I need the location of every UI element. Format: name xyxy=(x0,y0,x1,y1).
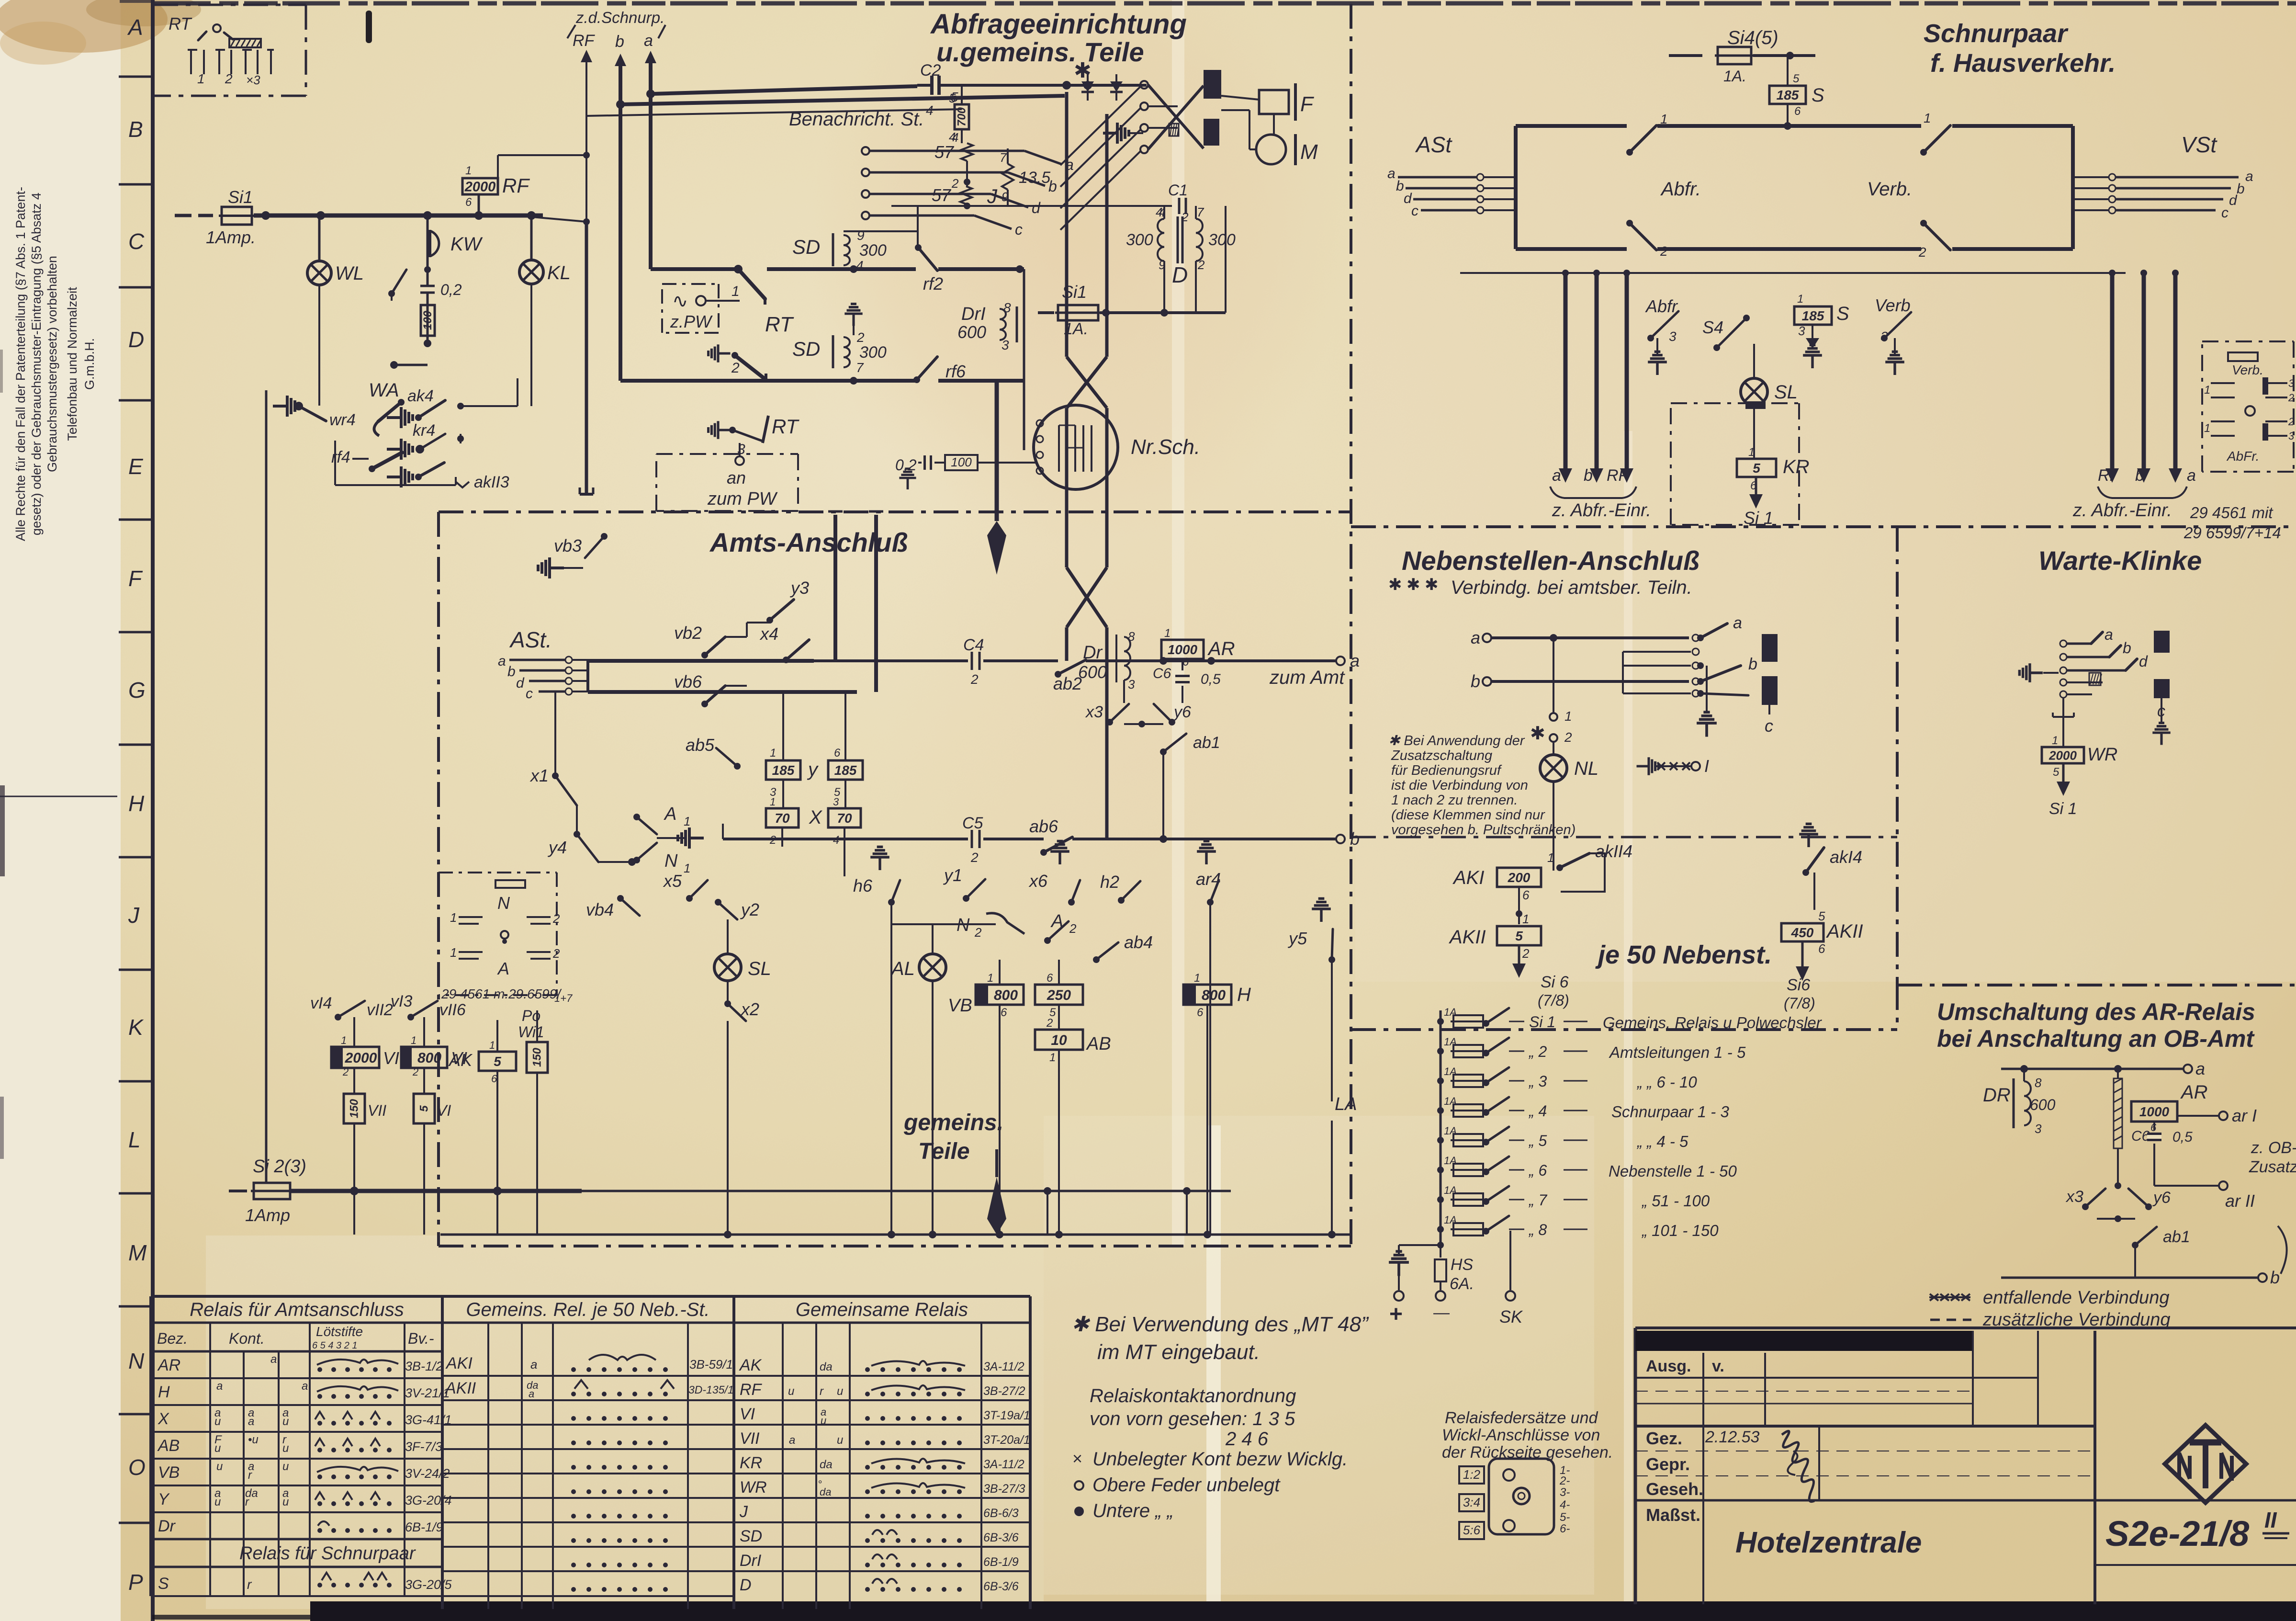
svg-text:3B-59/1: 3B-59/1 xyxy=(689,1357,733,1372)
svg-text:C6: C6 xyxy=(2131,1128,2150,1144)
svg-text:u: u xyxy=(282,1442,289,1455)
svg-text:c: c xyxy=(1765,716,1773,736)
svg-text:5: 5 xyxy=(1753,461,1760,476)
svg-text:y: y xyxy=(807,759,819,780)
svg-text:SL: SL xyxy=(1774,382,1798,403)
svg-text:3A-11/2: 3A-11/2 xyxy=(983,1360,1024,1373)
svg-text:r: r xyxy=(248,1469,252,1482)
svg-text:Wickl-Anschlüsse von: Wickl-Anschlüsse von xyxy=(1442,1426,1600,1444)
svg-text:2: 2 xyxy=(1197,258,1205,272)
svg-text:S: S xyxy=(1812,85,1824,106)
svg-text:1: 1 xyxy=(1522,912,1529,926)
svg-text:b: b xyxy=(1350,829,1360,849)
svg-text:Gemeins. Relais u Polwechsler: Gemeins. Relais u Polwechsler xyxy=(1603,1014,1823,1032)
svg-text:akI4: akI4 xyxy=(1830,847,1862,867)
svg-text:C1: C1 xyxy=(1168,181,1188,199)
svg-text:2: 2 xyxy=(1046,1017,1053,1030)
svg-text:z. Abfr.-Einr.: z. Abfr.-Einr. xyxy=(1552,500,1651,521)
svg-text:5: 5 xyxy=(2053,766,2060,779)
svg-text:29 6599/7+14: 29 6599/7+14 xyxy=(2183,524,2281,542)
svg-text:800: 800 xyxy=(417,1050,441,1066)
svg-text:×3: ×3 xyxy=(246,73,260,87)
svg-text:1A: 1A xyxy=(1444,1095,1457,1107)
svg-text:AR: AR xyxy=(1207,638,1235,659)
svg-text:a: a xyxy=(498,653,506,669)
svg-text:Si1: Si1 xyxy=(228,187,253,207)
svg-text:gemeins.: gemeins. xyxy=(903,1110,1003,1135)
svg-text:a: a xyxy=(1387,166,1396,181)
svg-text:1Amp.: 1Amp. xyxy=(206,227,256,247)
svg-text:3-: 3- xyxy=(1560,1486,1570,1499)
svg-text:Zusatz: Zusatz xyxy=(2249,1158,2296,1176)
svg-text:2: 2 xyxy=(1522,946,1530,961)
svg-text:b: b xyxy=(2123,639,2131,657)
svg-text:d: d xyxy=(2229,193,2238,208)
svg-text:c: c xyxy=(1015,221,1023,238)
svg-text:gesetz) oder der Gebrauchsmust: gesetz) oder der Gebrauchsmuster-Eintrag… xyxy=(29,193,44,535)
svg-text:1: 1 xyxy=(489,1039,495,1051)
svg-text:1: 1 xyxy=(770,796,776,808)
svg-text:2: 2 xyxy=(2288,416,2294,428)
svg-text:6: 6 xyxy=(465,196,472,209)
svg-text:S2e-21/8: S2e-21/8 xyxy=(2105,1514,2250,1553)
svg-text:1 nach 2 zu trennen.: 1 nach 2 zu trennen. xyxy=(1391,793,1518,808)
svg-text:Bv.-: Bv.- xyxy=(408,1330,434,1347)
svg-text:ab4: ab4 xyxy=(1124,932,1153,952)
svg-text:2 4 6: 2 4 6 xyxy=(1225,1428,1269,1450)
svg-text:800: 800 xyxy=(994,987,1018,1003)
svg-text:u: u xyxy=(282,1496,289,1508)
svg-text:2: 2 xyxy=(2288,392,2294,404)
svg-text:Untere „ „: Untere „ „ xyxy=(1092,1500,1173,1521)
svg-text:a: a xyxy=(2195,1059,2205,1078)
svg-text:r: r xyxy=(245,1496,249,1508)
svg-text:DrI: DrI xyxy=(961,304,986,324)
svg-text:3: 3 xyxy=(737,442,745,457)
svg-text:Verb: Verb xyxy=(1875,295,1911,315)
svg-text:z.d.Schnurp.: z.d.Schnurp. xyxy=(575,9,664,26)
svg-text:3: 3 xyxy=(1798,324,1805,338)
svg-text:von vorn gesehen: 1 3 5: von vorn gesehen: 1 3 5 xyxy=(1090,1408,1295,1429)
svg-text:100: 100 xyxy=(951,455,972,469)
svg-text:3D-135/1: 3D-135/1 xyxy=(688,1383,734,1396)
svg-text:•u: •u xyxy=(248,1433,259,1446)
svg-text:VB: VB xyxy=(158,1463,180,1482)
svg-text:vb3: vb3 xyxy=(554,536,582,555)
svg-text:3T-19a/1: 3T-19a/1 xyxy=(983,1409,1030,1422)
svg-text:Ausg.: Ausg. xyxy=(1646,1357,1691,1375)
svg-text:2000: 2000 xyxy=(464,179,496,194)
svg-text:185: 185 xyxy=(772,763,795,778)
svg-text:a: a xyxy=(529,1388,534,1400)
svg-text:rf2: rf2 xyxy=(923,274,943,294)
svg-text:2: 2 xyxy=(1564,730,1572,745)
svg-text:„ 2: „ 2 xyxy=(1528,1043,1547,1060)
svg-text:Si 1: Si 1 xyxy=(1744,508,1773,528)
svg-text:rf4: rf4 xyxy=(331,448,350,466)
svg-text:rf6: rf6 xyxy=(945,362,966,381)
svg-text:S: S xyxy=(1836,303,1849,324)
svg-text:Geseh.: Geseh. xyxy=(1646,1479,1703,1499)
svg-text:1: 1 xyxy=(1797,293,1803,306)
svg-text:x1: x1 xyxy=(529,766,549,785)
svg-text:VB: VB xyxy=(948,996,972,1016)
svg-text:Kont.: Kont. xyxy=(229,1330,265,1347)
svg-text:ist die Verbindung von: ist die Verbindung von xyxy=(1391,778,1528,793)
svg-text:K: K xyxy=(128,1015,144,1040)
svg-text:✱: ✱ xyxy=(1530,724,1545,744)
svg-text:b: b xyxy=(615,33,624,51)
svg-text:ASt: ASt xyxy=(1415,132,1452,157)
svg-text:5: 5 xyxy=(1793,72,1800,85)
svg-text:zum Amt: zum Amt xyxy=(1269,667,1345,688)
svg-text:Dr: Dr xyxy=(1083,643,1103,663)
svg-text:3: 3 xyxy=(1669,329,1677,344)
svg-text:Si 1: Si 1 xyxy=(2049,800,2077,818)
svg-text:VII: VII xyxy=(368,1102,386,1119)
svg-text:ar II: ar II xyxy=(2225,1191,2255,1211)
svg-text:NL: NL xyxy=(1574,758,1598,779)
svg-text:1: 1 xyxy=(450,910,457,925)
svg-text:1A: 1A xyxy=(1444,1214,1457,1226)
svg-text:J: J xyxy=(739,1503,748,1521)
svg-text:8: 8 xyxy=(2035,1076,2042,1090)
svg-text:Telefonbau und Normalzeit: Telefonbau und Normalzeit xyxy=(65,287,79,441)
svg-text:ak4: ak4 xyxy=(407,387,434,405)
svg-text:je 50 Nebenst.: je 50 Nebenst. xyxy=(1595,941,1772,969)
svg-text:2: 2 xyxy=(412,1066,418,1078)
svg-text:akII3: akII3 xyxy=(474,473,509,491)
svg-text:5: 5 xyxy=(1515,929,1523,943)
svg-text:RF: RF xyxy=(573,32,596,50)
svg-text:u: u xyxy=(214,1415,221,1428)
svg-text:AK: AK xyxy=(448,1050,473,1070)
svg-text:1: 1 xyxy=(2204,422,2210,435)
svg-text:D: D xyxy=(740,1576,752,1594)
svg-text:4: 4 xyxy=(856,258,864,273)
svg-text:185: 185 xyxy=(1802,308,1824,323)
svg-text:2: 2 xyxy=(552,911,560,926)
svg-text:✱: ✱ xyxy=(1425,576,1439,594)
svg-text:v.: v. xyxy=(1712,1357,1724,1375)
svg-text:1: 1 xyxy=(684,814,690,828)
svg-text:„ 5: „ 5 xyxy=(1528,1132,1547,1149)
svg-text:2000: 2000 xyxy=(2048,748,2077,762)
svg-text:7: 7 xyxy=(1197,205,1204,219)
svg-text:2-: 2- xyxy=(1559,1474,1570,1487)
svg-text:3B-27/3: 3B-27/3 xyxy=(983,1482,1025,1496)
svg-text:1: 1 xyxy=(450,945,457,960)
svg-text:4-: 4- xyxy=(1560,1498,1570,1511)
svg-text:„ „ 6 - 10: „ „ 6 - 10 xyxy=(1636,1073,1697,1091)
svg-text:8: 8 xyxy=(1003,300,1011,315)
svg-text:2: 2 xyxy=(769,834,776,847)
svg-text:y6: y6 xyxy=(2152,1189,2171,1207)
svg-text:70: 70 xyxy=(837,811,852,826)
svg-text:1+7: 1+7 xyxy=(554,992,573,1004)
svg-text:ab5: ab5 xyxy=(686,735,715,755)
svg-text:d: d xyxy=(1032,199,1041,216)
svg-text:150: 150 xyxy=(348,1099,361,1118)
svg-text:J: J xyxy=(128,903,140,928)
svg-text:300: 300 xyxy=(1126,231,1153,249)
svg-text:5: 5 xyxy=(1818,909,1825,923)
svg-text:S4: S4 xyxy=(1702,317,1723,337)
svg-text:1: 1 xyxy=(411,1034,416,1046)
svg-text:x2: x2 xyxy=(740,999,759,1019)
svg-text:d: d xyxy=(516,675,525,691)
svg-text:1: 1 xyxy=(1748,446,1755,459)
svg-text:7: 7 xyxy=(1000,150,1007,165)
svg-text:bei Anschaltung an OB-Amt: bei Anschaltung an OB-Amt xyxy=(1937,1025,2255,1052)
svg-text:Umschaltung des AR-Relais: Umschaltung des AR-Relais xyxy=(1937,998,2255,1025)
svg-text:entfallende Verbindung: entfallende Verbindung xyxy=(1983,1288,2169,1308)
svg-text:y3: y3 xyxy=(789,578,809,598)
svg-text:a: a xyxy=(1552,466,1561,485)
svg-text:4: 4 xyxy=(833,834,839,847)
svg-text:✱: ✱ xyxy=(1407,576,1420,594)
svg-text:Gez.: Gez. xyxy=(1646,1428,1682,1448)
svg-text:Si 1: Si 1 xyxy=(1529,1013,1555,1031)
svg-text:6: 6 xyxy=(1047,972,1053,985)
svg-text:RT: RT xyxy=(765,313,794,336)
svg-text:WR: WR xyxy=(2087,745,2117,765)
svg-text:8: 8 xyxy=(1128,629,1135,644)
svg-text:„ 101 - 150: „ 101 - 150 xyxy=(1641,1222,1719,1239)
svg-text:b: b xyxy=(1748,655,1757,673)
svg-text:„ 6: „ 6 xyxy=(1528,1162,1547,1179)
svg-text:y6: y6 xyxy=(1173,703,1191,721)
svg-text:6: 6 xyxy=(1197,1006,1204,1019)
svg-text:6: 6 xyxy=(1182,656,1189,669)
svg-text:Unbelegter Kont bezw Wicklg.: Unbelegter Kont bezw Wicklg. xyxy=(1092,1449,1348,1470)
svg-text:H: H xyxy=(128,791,145,816)
svg-text:2: 2 xyxy=(970,850,979,865)
svg-text:RF: RF xyxy=(740,1381,763,1399)
svg-text:x3: x3 xyxy=(1085,703,1103,721)
svg-text:Nebenstelle 1 - 50: Nebenstelle 1 - 50 xyxy=(1609,1162,1737,1180)
svg-text:6B-6/3: 6B-6/3 xyxy=(983,1507,1019,1520)
svg-text:1A: 1A xyxy=(1444,1066,1457,1077)
svg-text:700: 700 xyxy=(956,107,968,126)
svg-text:a: a xyxy=(302,1380,308,1393)
svg-text:z.PW: z.PW xyxy=(670,312,713,331)
svg-text:SD: SD xyxy=(740,1527,762,1545)
svg-text:d: d xyxy=(2139,653,2148,670)
svg-text:SK: SK xyxy=(1499,1307,1523,1326)
svg-text:Rf: Rf xyxy=(2098,466,2116,485)
svg-text:Relais für Amtsanschluss: Relais für Amtsanschluss xyxy=(190,1299,404,1320)
svg-text:600: 600 xyxy=(957,322,986,342)
svg-text:X: X xyxy=(158,1410,169,1428)
svg-text:z. OB-: z. OB- xyxy=(2251,1139,2296,1157)
svg-text:zum PW: zum PW xyxy=(707,489,778,509)
svg-text:J: J xyxy=(987,185,998,207)
svg-text:Nebenstellen-Anschluß: Nebenstellen-Anschluß xyxy=(1402,545,1699,576)
svg-text:2: 2 xyxy=(951,176,959,191)
svg-text:Amtsleitungen 1 - 5: Amtsleitungen 1 - 5 xyxy=(1609,1043,1746,1061)
svg-text:r: r xyxy=(820,1385,824,1398)
svg-text:A: A xyxy=(664,804,676,824)
svg-text:WR: WR xyxy=(740,1478,767,1496)
svg-text:u: u xyxy=(214,1496,221,1508)
svg-text:6: 6 xyxy=(1001,1006,1007,1019)
svg-text:H: H xyxy=(158,1383,170,1401)
svg-text:M: M xyxy=(128,1240,147,1265)
svg-text:b: b xyxy=(1471,671,1480,691)
svg-text:3: 3 xyxy=(1002,338,1009,352)
svg-text:Warte-Klinke: Warte-Klinke xyxy=(2038,545,2202,576)
svg-text:Maßst.: Maßst. xyxy=(1646,1505,1700,1525)
svg-text:X: X xyxy=(809,807,822,828)
svg-text:3: 3 xyxy=(1880,329,1888,344)
svg-text:da: da xyxy=(820,1360,833,1373)
svg-text:y5: y5 xyxy=(1287,929,1307,948)
svg-text:a: a xyxy=(1471,628,1480,647)
svg-text:5: 5 xyxy=(418,1105,431,1112)
svg-text:für Bedienungsruf: für Bedienungsruf xyxy=(1391,763,1502,778)
svg-text:ar I: ar I xyxy=(2232,1106,2257,1125)
svg-text:vb4: vb4 xyxy=(586,900,614,919)
svg-text:G.m.b.H.: G.m.b.H. xyxy=(82,338,97,390)
svg-text:DrI: DrI xyxy=(740,1552,762,1570)
svg-text:N: N xyxy=(957,915,970,935)
svg-text:100: 100 xyxy=(421,310,434,330)
svg-text:wr4: wr4 xyxy=(329,411,356,429)
svg-text:SD: SD xyxy=(792,236,820,258)
svg-text:150: 150 xyxy=(531,1047,544,1067)
svg-text:A: A xyxy=(497,959,509,978)
svg-text:1: 1 xyxy=(1924,111,1931,125)
svg-text:2: 2 xyxy=(970,672,979,687)
svg-text:6B-3/6: 6B-3/6 xyxy=(983,1531,1019,1544)
svg-text:c: c xyxy=(526,686,533,702)
svg-text:WA: WA xyxy=(369,380,399,401)
svg-text:Alle Rechte für den Fall der P: Alle Rechte für den Fall der Patentertei… xyxy=(13,187,28,541)
svg-text:a: a xyxy=(216,1380,223,1393)
svg-text:RT: RT xyxy=(169,14,192,34)
svg-text:Schnurpaar: Schnurpaar xyxy=(1924,19,2069,48)
svg-text:3T-20a/1: 3T-20a/1 xyxy=(983,1433,1030,1447)
svg-text:4: 4 xyxy=(926,103,934,118)
svg-text:Wi1: Wi1 xyxy=(518,1023,544,1041)
svg-text:5: 5 xyxy=(494,1054,501,1069)
svg-text:1A: 1A xyxy=(1444,1006,1457,1018)
svg-text:C5: C5 xyxy=(962,814,983,832)
svg-text:2: 2 xyxy=(225,71,233,86)
svg-text:10: 10 xyxy=(1051,1032,1067,1048)
svg-text:4: 4 xyxy=(952,130,958,145)
svg-text:Si6: Si6 xyxy=(1787,976,1810,994)
svg-text:6: 6 xyxy=(1794,105,1801,118)
svg-text:A: A xyxy=(127,15,143,40)
svg-text:1: 1 xyxy=(987,972,993,985)
svg-text:AR: AR xyxy=(157,1356,180,1374)
svg-text:VI: VI xyxy=(437,1102,451,1119)
svg-text:600: 600 xyxy=(1078,662,1107,682)
svg-text:6: 6 xyxy=(2150,1122,2157,1134)
svg-text:9: 9 xyxy=(857,228,865,243)
svg-text:AK: AK xyxy=(739,1356,762,1374)
svg-text:Si 6: Si 6 xyxy=(1541,973,1569,991)
svg-text:a: a xyxy=(644,32,653,50)
svg-text:z. Abfr.-Einr.: z. Abfr.-Einr. xyxy=(2072,500,2172,521)
svg-text:KR: KR xyxy=(1783,456,1810,477)
svg-text:WL: WL xyxy=(335,263,364,284)
svg-text:ab6: ab6 xyxy=(1029,816,1058,836)
svg-text:300: 300 xyxy=(859,343,887,362)
svg-text:AKII: AKII xyxy=(444,1379,476,1397)
svg-text:3B-27/2: 3B-27/2 xyxy=(983,1384,1025,1398)
svg-text:D: D xyxy=(128,327,144,352)
svg-text:VSt: VSt xyxy=(2181,132,2217,157)
svg-text:u: u xyxy=(837,1434,843,1447)
svg-text:kr4: kr4 xyxy=(413,421,435,440)
svg-text:0,5: 0,5 xyxy=(1201,671,1221,687)
svg-text:2: 2 xyxy=(974,925,982,940)
svg-text:„ 7: „ 7 xyxy=(1528,1191,1548,1209)
svg-text:AKI: AKI xyxy=(1452,867,1484,888)
svg-text:7: 7 xyxy=(856,360,864,375)
svg-text:+: + xyxy=(1389,1302,1403,1327)
svg-text:u: u xyxy=(214,1442,221,1455)
svg-text:3: 3 xyxy=(1128,677,1135,691)
svg-text:1:2: 1:2 xyxy=(1463,1467,1481,1482)
svg-text:b: b xyxy=(2237,181,2245,197)
svg-text:N: N xyxy=(664,851,678,871)
svg-text:F: F xyxy=(1300,92,1314,116)
svg-text:„ 4: „ 4 xyxy=(1528,1102,1547,1120)
svg-text:1: 1 xyxy=(1164,627,1171,640)
svg-text:KL: KL xyxy=(547,262,571,283)
svg-text:c: c xyxy=(1411,203,1418,219)
svg-text:185: 185 xyxy=(834,763,857,778)
svg-text:5-: 5- xyxy=(1560,1511,1570,1524)
svg-text:2: 2 xyxy=(1918,245,1926,260)
svg-text:Verbindg. bei amtsber. Teiln.: Verbindg. bei amtsber. Teiln. xyxy=(1451,577,1692,598)
svg-text:6: 6 xyxy=(1522,888,1530,902)
svg-text:✱ Bei Verwendung des „MT 48”: ✱ Bei Verwendung des „MT 48” xyxy=(1071,1313,1369,1336)
svg-text:2: 2 xyxy=(342,1066,349,1078)
svg-text:b: b xyxy=(507,664,516,680)
svg-text:AKII: AKII xyxy=(1826,921,1863,942)
svg-text:RF: RF xyxy=(502,174,530,197)
svg-text:13.5: 13.5 xyxy=(1019,169,1050,187)
svg-text:RT: RT xyxy=(772,415,800,438)
svg-text:f. Hausverkehr.: f. Hausverkehr. xyxy=(1930,49,2116,78)
svg-text:DR: DR xyxy=(1983,1085,2011,1106)
svg-text:—: — xyxy=(1433,1304,1450,1322)
svg-text:6B-1/9: 6B-1/9 xyxy=(405,1520,443,1534)
svg-text:Teile: Teile xyxy=(918,1139,970,1164)
svg-text:vb6: vb6 xyxy=(674,672,702,691)
svg-text:B: B xyxy=(128,117,143,142)
svg-text:1: 1 xyxy=(732,283,740,299)
svg-text:(diese Klemmen sind nur: (diese Klemmen sind nur xyxy=(1391,807,1545,823)
svg-text:✱: ✱ xyxy=(1388,576,1402,594)
svg-text:Schnurpaar 1 - 3: Schnurpaar 1 - 3 xyxy=(1611,1103,1729,1121)
svg-text:Gepr.: Gepr. xyxy=(1646,1454,1690,1474)
svg-text:a: a xyxy=(1350,651,1360,670)
svg-text:1: 1 xyxy=(1564,709,1572,724)
svg-text:ab1: ab1 xyxy=(1193,734,1220,752)
svg-text:Y: Y xyxy=(158,1490,170,1508)
svg-text:HS: HS xyxy=(1451,1256,1474,1274)
svg-text:AR: AR xyxy=(2180,1082,2208,1103)
svg-text:H: H xyxy=(1237,984,1251,1005)
svg-text:6: 6 xyxy=(1818,941,1825,956)
svg-text:Dr: Dr xyxy=(158,1517,176,1535)
